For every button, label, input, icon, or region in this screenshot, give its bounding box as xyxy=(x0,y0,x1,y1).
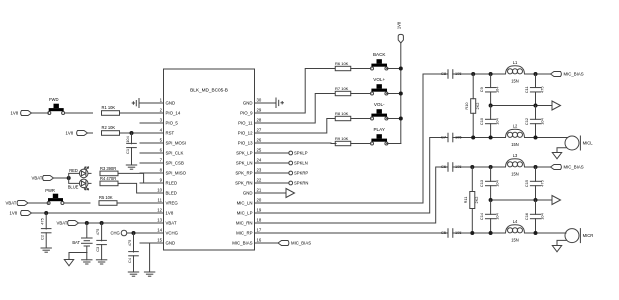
svg-text:BACK: BACK xyxy=(373,52,386,57)
junction C9 top xyxy=(489,72,493,76)
junction C10 bottom xyxy=(489,136,493,140)
pin 12 1V8 stub xyxy=(140,208,174,216)
ground (1V8 cap) xyxy=(41,248,51,252)
wire R8 to VOL- switch xyxy=(351,118,371,120)
switch PLAY pushbutton xyxy=(371,134,388,145)
wire R6 to BACK switch xyxy=(351,68,371,70)
svg-text:RST: RST xyxy=(166,131,175,136)
svg-text:MIC_BIAS: MIC_BIAS xyxy=(232,241,252,246)
svg-text:CHG: CHG xyxy=(111,231,120,236)
svg-text:SPI_CLK: SPI_CLK xyxy=(166,151,184,156)
svg-text:104: 104 xyxy=(125,135,130,142)
inductor L4 15N xyxy=(506,219,525,243)
resistor R3 xyxy=(100,171,118,176)
svg-text:MIC_RN: MIC_RN xyxy=(236,221,253,226)
svg-text:475: 475 xyxy=(40,218,45,225)
output flag (right channel mid) xyxy=(552,196,561,205)
svg-text:R6 10K: R6 10K xyxy=(335,61,349,66)
svg-text:VBAT: VBAT xyxy=(57,221,68,226)
svg-text:C15: C15 xyxy=(524,180,529,187)
resistor R2 xyxy=(102,131,120,136)
resistor R11 2K2 xyxy=(463,167,479,233)
junction LED node xyxy=(67,176,71,180)
svg-text:R7 10K: R7 10K xyxy=(335,86,349,91)
wire LED D2 to R4 xyxy=(88,182,91,184)
inductor L2 15N xyxy=(506,123,525,147)
junction C14 bottom xyxy=(489,231,493,235)
pin 1 GND stub xyxy=(140,98,175,106)
svg-text:C3: C3 xyxy=(95,247,100,252)
svg-text:VBAT: VBAT xyxy=(6,201,17,206)
svg-text:104: 104 xyxy=(495,86,500,93)
svg-text:SPK_LP: SPK_LP xyxy=(236,151,253,156)
svg-text:MIC_BIAS: MIC_BIAS xyxy=(291,241,311,246)
wire R1 to pin 2 xyxy=(120,112,164,114)
wire pin 15 GND to ground xyxy=(150,243,164,272)
wire R3 to pin 9 RLED xyxy=(118,173,164,183)
port SPKLP xyxy=(289,151,308,156)
svg-text:104: 104 xyxy=(495,179,500,186)
pin 3 PIO_5 stub xyxy=(140,118,178,126)
wire VBAT to LED node xyxy=(54,177,69,179)
svg-text:PLAY: PLAY xyxy=(373,127,384,132)
wire pin 28 to VOL+ row xyxy=(276,94,336,124)
wire BACK switch to 1V8 rail xyxy=(387,68,401,70)
svg-text:13: 13 xyxy=(157,218,162,223)
wire pin to SPKRN port xyxy=(276,182,289,184)
svg-text:C10: C10 xyxy=(479,117,484,125)
svg-text:C11: C11 xyxy=(524,86,529,93)
svg-text:11: 11 xyxy=(158,198,163,203)
svg-text:SPKLN: SPKLN xyxy=(294,161,308,166)
capacitor C9 xyxy=(479,74,500,106)
pin 5 SPI_MOSI stub xyxy=(140,138,186,146)
svg-text:VCHG: VCHG xyxy=(166,231,179,236)
wire C5 to L4 xyxy=(453,232,505,234)
LED D2 BLUE xyxy=(79,179,88,190)
svg-text:475: 475 xyxy=(540,87,545,94)
capacitor C12 xyxy=(524,106,545,138)
capacitor at pin 30 GND xyxy=(276,98,283,108)
pin 21 GND stub xyxy=(243,188,276,196)
wire L1 to MIC_BIAS port xyxy=(525,73,551,75)
svg-text:R5 10K: R5 10K xyxy=(99,195,113,200)
svg-text:105: 105 xyxy=(455,230,462,235)
port VBAT (PWR row) xyxy=(6,201,29,206)
svg-text:C9: C9 xyxy=(479,87,484,92)
svg-text:23: 23 xyxy=(257,168,262,173)
port MIC_BIAS (left channel) xyxy=(551,72,584,77)
wire 1V8 rail vertical xyxy=(400,43,402,144)
wire MICL to ground flag xyxy=(557,148,566,153)
svg-text:C2: C2 xyxy=(40,235,45,240)
svg-text:VBAT: VBAT xyxy=(166,221,177,226)
capacitor C13 xyxy=(479,167,500,200)
wire VOL- switch to 1V8 rail xyxy=(387,118,401,120)
svg-text:BAT: BAT xyxy=(72,240,80,245)
svg-text:19: 19 xyxy=(257,208,262,213)
wire L3 to MIC_BIAS port xyxy=(525,166,551,168)
pin 16 MIC_BIAS stub xyxy=(232,238,275,246)
svg-text:PIO_13: PIO_13 xyxy=(238,141,253,146)
junction VOL+ on 1V8 rail xyxy=(399,92,403,96)
junction C11 top xyxy=(534,72,538,76)
svg-text:105: 105 xyxy=(455,134,462,139)
port VBAT (LED row) xyxy=(32,176,54,181)
svg-text:L1: L1 xyxy=(513,60,518,65)
svg-text:15N: 15N xyxy=(511,171,519,176)
svg-text:C5: C5 xyxy=(441,230,446,235)
svg-text:C12: C12 xyxy=(524,118,529,125)
junction BACK on 1V8 rail xyxy=(399,67,403,71)
wire pin 27 to VOL- row xyxy=(276,119,336,134)
port SPKRN xyxy=(289,181,309,186)
svg-text:MIC_BIAS: MIC_BIAS xyxy=(564,72,584,77)
wire R9 to PLAY switch xyxy=(351,143,371,145)
junction 1V8 cap node xyxy=(44,211,48,215)
pin 18 MIC_RN stub xyxy=(236,218,276,226)
svg-text:2K2: 2K2 xyxy=(474,197,479,204)
capacitor C15 475 xyxy=(524,167,545,200)
svg-text:VREG: VREG xyxy=(166,201,179,206)
wire C7 to L2 xyxy=(453,137,505,139)
wire R7 to VOL+ switch xyxy=(351,93,371,95)
wire pin 26 to PLAY row xyxy=(276,142,337,145)
junction C15 top xyxy=(534,165,538,169)
svg-text:1V8: 1V8 xyxy=(66,131,74,136)
capacitor C16 xyxy=(524,200,545,233)
capacitor C10 xyxy=(479,106,500,138)
wire FWD to R1 xyxy=(65,112,93,114)
svg-text:C14: C14 xyxy=(479,212,484,220)
pin 24 SPK_LN stub xyxy=(236,158,276,166)
svg-text:104: 104 xyxy=(495,117,500,124)
svg-text:VOL-: VOL- xyxy=(374,102,385,107)
wire MICR to ground flag xyxy=(557,240,566,245)
svg-text:MIC_BIAS: MIC_BIAS xyxy=(564,165,584,170)
wire LED D1 to R3 xyxy=(88,172,91,174)
capacitor C2 475 on 1V8 xyxy=(40,213,51,248)
junction C15/C16 mid xyxy=(534,198,538,202)
capacitor C11 475 xyxy=(524,74,545,106)
svg-text:VOL+: VOL+ xyxy=(373,77,385,82)
svg-text:SPKRP: SPKRP xyxy=(294,171,308,176)
svg-text:PIO_9: PIO_9 xyxy=(240,111,253,116)
svg-text:14: 14 xyxy=(157,228,162,233)
svg-text:C8: C8 xyxy=(441,71,446,76)
ground flag (MICL) xyxy=(552,153,561,159)
ground flag (MICR) xyxy=(552,246,561,252)
resistor R9 xyxy=(335,141,351,145)
junction C13 top xyxy=(489,165,493,169)
output flag (pin 21 GND) xyxy=(286,189,295,198)
pin 6 SPI_CLK stub xyxy=(140,148,183,156)
junction RST node xyxy=(130,131,134,135)
svg-text:C13: C13 xyxy=(479,180,484,187)
svg-text:GND: GND xyxy=(243,191,253,196)
pin 11 VREG stub xyxy=(140,198,178,206)
pin 28 PIO_11 stub xyxy=(238,118,275,126)
wire MIC_LP to C7 xyxy=(276,138,449,214)
junction C16 bottom xyxy=(534,231,538,235)
capacitor C14 xyxy=(479,200,500,233)
wire 1V8 to pin 12 xyxy=(32,212,164,214)
svg-text:R11: R11 xyxy=(463,197,468,204)
capacitor C1 104 on RST xyxy=(125,133,136,165)
svg-text:R8 10K: R8 10K xyxy=(335,111,349,116)
capacitor C3 475 on VBAT xyxy=(95,223,106,260)
pin 15 GND stub xyxy=(140,238,175,246)
LED D1 RED xyxy=(79,167,88,178)
svg-text:BLUE: BLUE xyxy=(68,185,79,190)
wire MIC_LN to C8 xyxy=(276,74,449,203)
svg-text:22: 22 xyxy=(257,178,262,183)
svg-text:BLK_MD_BC05-B: BLK_MD_BC05-B xyxy=(190,88,228,93)
svg-text:10: 10 xyxy=(157,188,162,193)
wire R2 to pin 4 RST xyxy=(120,132,164,134)
junction C11/C12 mid xyxy=(534,104,538,108)
port MIC_BIAS (pin 16) xyxy=(278,241,311,246)
svg-text:SPI_MISO: SPI_MISO xyxy=(166,171,187,176)
pin 2 PIO_14 stub xyxy=(140,108,181,116)
capacitor at pin 1 GND xyxy=(132,99,139,108)
pin 25 SPK_LP stub xyxy=(236,148,275,156)
pin 20 MIC_LN stub xyxy=(237,198,276,206)
svg-text:18: 18 xyxy=(257,218,262,223)
svg-text:PWR: PWR xyxy=(45,188,55,193)
svg-text:26: 26 xyxy=(257,138,262,143)
port 1V8 (FWD row) xyxy=(11,111,32,116)
svg-text:SPKLP: SPKLP xyxy=(294,151,308,156)
port 1V8 (RST row) xyxy=(66,131,88,136)
svg-text:15N: 15N xyxy=(511,78,519,83)
wire MIC_RN to C6 xyxy=(276,167,449,223)
svg-text:1V8: 1V8 xyxy=(10,211,18,216)
svg-text:21: 21 xyxy=(257,188,262,193)
svg-text:SPK_RP: SPK_RP xyxy=(235,171,252,176)
svg-text:PIO_5: PIO_5 xyxy=(166,121,179,126)
IC U1 BLK_MD_BC05-B module body xyxy=(164,69,255,250)
wire 1V8 to FWD switch xyxy=(32,112,49,114)
resistor R5 xyxy=(99,201,117,206)
pin 13 VBAT stub xyxy=(140,218,177,226)
resistor R8 xyxy=(335,116,351,120)
switch FWD pushbutton xyxy=(48,104,65,115)
wire mid line (left channel) xyxy=(491,105,552,107)
wire to LED D2 xyxy=(69,178,80,183)
pin 26 PIO_13 stub xyxy=(238,138,276,146)
svg-text:2K2: 2K2 xyxy=(475,103,480,110)
ground (VBAT cap) xyxy=(96,260,106,264)
svg-text:105: 105 xyxy=(455,164,462,169)
svg-text:GND: GND xyxy=(243,101,253,106)
microphone MICL xyxy=(565,136,593,150)
port SPKRP xyxy=(289,171,309,176)
pin 9 RLED stub xyxy=(140,178,177,186)
wire R4 to pin 10 BLED xyxy=(118,183,164,193)
junction C9/C10 mid xyxy=(489,104,493,108)
svg-text:25: 25 xyxy=(257,148,262,153)
svg-text:27: 27 xyxy=(257,128,262,133)
svg-text:R3 390R: R3 390R xyxy=(100,166,116,171)
wire pin to SPKLP port xyxy=(276,152,289,154)
svg-text:475: 475 xyxy=(540,180,545,187)
switch VOL- pushbutton xyxy=(371,109,388,120)
svg-text:PIO_11: PIO_11 xyxy=(238,121,253,126)
svg-text:SPKRN: SPKRN xyxy=(294,181,308,186)
wire VOL+ switch to 1V8 rail xyxy=(387,93,401,95)
pin 10 BLED stub xyxy=(140,188,177,196)
svg-text:PIO_14: PIO_14 xyxy=(166,111,181,116)
capacitor C8 105 xyxy=(441,70,461,79)
svg-text:15: 15 xyxy=(157,238,162,243)
svg-text:1V8: 1V8 xyxy=(396,21,401,29)
svg-text:475: 475 xyxy=(95,229,100,236)
svg-text:L4: L4 xyxy=(513,219,518,224)
junction battery node xyxy=(85,221,89,225)
switch PWR pushbutton xyxy=(47,194,64,205)
svg-text:BLED: BLED xyxy=(166,191,177,196)
svg-text:VBAT: VBAT xyxy=(32,176,43,181)
svg-text:SPI_MOSI: SPI_MOSI xyxy=(166,141,187,146)
port 1V8 (supply row) xyxy=(10,211,32,216)
pin 23 SPK_RP stub xyxy=(235,168,275,176)
capacitor C6 105 xyxy=(441,163,461,172)
svg-text:15N: 15N xyxy=(511,237,519,242)
pin 4 RST stub xyxy=(140,128,175,136)
wire 1V8 to R2 xyxy=(88,132,93,134)
capacitor C5 105 xyxy=(441,229,461,238)
capacitor C4 475 on VCHG xyxy=(127,233,138,272)
wire R5 to pin 11 VREG xyxy=(117,202,164,204)
junction C12 bottom xyxy=(534,136,538,140)
svg-text:PIO_12: PIO_12 xyxy=(238,131,253,136)
svg-text:SPI_CSB: SPI_CSB xyxy=(166,161,184,166)
wire VBAT to pin 13 xyxy=(79,222,164,224)
junction R11 top xyxy=(470,165,474,169)
wire L4 to MICR xyxy=(525,232,567,234)
wire pin 29 to BACK row xyxy=(276,69,336,114)
wire PWR to R5 xyxy=(64,202,90,204)
svg-text:GND: GND xyxy=(166,101,176,106)
battery BAT xyxy=(72,223,92,253)
wire VBAT to PWR switch xyxy=(28,202,49,204)
svg-text:104: 104 xyxy=(540,212,545,219)
wire pin to SPKLN port xyxy=(276,162,289,164)
svg-text:104: 104 xyxy=(540,117,545,124)
resistor R7 xyxy=(335,91,351,95)
junction R10 bottom xyxy=(471,136,475,140)
wire CHG to pin 14 VCHG xyxy=(134,232,164,234)
wire to LED D1 xyxy=(69,173,80,178)
inductor L3 15N xyxy=(506,153,525,177)
svg-text:1V8: 1V8 xyxy=(166,211,174,216)
svg-text:R9 10K: R9 10K xyxy=(335,136,349,141)
svg-text:R2 10K: R2 10K xyxy=(102,125,116,130)
svg-text:C6: C6 xyxy=(441,164,446,169)
pin 30 GND stub xyxy=(243,98,276,106)
wire MIC_RP to C5 xyxy=(276,232,449,234)
svg-text:R1 10K: R1 10K xyxy=(102,105,116,110)
svg-text:1V8: 1V8 xyxy=(11,111,19,116)
svg-text:R4 470R: R4 470R xyxy=(100,176,116,181)
svg-text:MIC_LP: MIC_LP xyxy=(237,211,253,216)
port MIC_BIAS (right channel) xyxy=(551,165,584,170)
wire pin to SPKRP port xyxy=(276,172,289,174)
junction C13/C14 mid xyxy=(489,198,493,202)
microphone MICR xyxy=(565,229,593,243)
svg-text:C4: C4 xyxy=(127,257,132,263)
svg-text:20: 20 xyxy=(257,198,262,203)
svg-text:12: 12 xyxy=(157,208,162,213)
pin 8 SPI_MISO stub xyxy=(140,168,187,176)
svg-text:MIC_RP: MIC_RP xyxy=(236,231,253,236)
wire C6 to L3 xyxy=(453,166,505,168)
svg-text:104: 104 xyxy=(495,212,500,219)
pin 7 SPI_CSB stub xyxy=(140,158,184,166)
connector CHG xyxy=(111,230,134,236)
pin 14 VCHG stub xyxy=(140,228,179,236)
svg-text:SPK_LN: SPK_LN xyxy=(236,161,253,166)
pin 22 SPK_RN stub xyxy=(235,178,275,186)
inductor L1 15N xyxy=(506,60,525,84)
pin 19 MIC_LP stub xyxy=(237,208,276,216)
wire PLAY switch to 1V8 rail xyxy=(387,143,401,145)
svg-text:C7: C7 xyxy=(441,134,446,139)
svg-text:C1: C1 xyxy=(125,149,130,154)
svg-text:RED: RED xyxy=(69,168,78,173)
power flag 1V8 (buttons rail) xyxy=(396,21,403,43)
ground (battery) xyxy=(82,260,92,264)
wire mid line (right channel) xyxy=(491,199,552,201)
svg-text:475: 475 xyxy=(127,240,132,247)
svg-text:RLED: RLED xyxy=(166,181,178,186)
ground (VCHG cap) xyxy=(128,272,138,276)
svg-text:FWD: FWD xyxy=(49,97,59,102)
svg-text:L2: L2 xyxy=(513,123,518,128)
capacitor C7 105 xyxy=(441,133,461,142)
svg-text:MIC_LN: MIC_LN xyxy=(237,201,253,206)
resistor R1 xyxy=(102,111,120,116)
wire battery to down-flag xyxy=(69,253,87,260)
svg-text:C16: C16 xyxy=(524,213,529,220)
svg-text:30: 30 xyxy=(257,98,262,103)
wire pin 16 to MIC_BIAS port xyxy=(276,242,279,244)
resistor R4 xyxy=(100,181,118,186)
svg-text:16: 16 xyxy=(257,238,262,243)
power flag down (battery) xyxy=(64,260,73,266)
svg-text:15N: 15N xyxy=(511,142,519,147)
svg-text:SPK_RN: SPK_RN xyxy=(235,181,252,186)
port VBAT (battery row) xyxy=(57,221,79,226)
svg-text:28: 28 xyxy=(257,118,262,123)
junction R11 bottom xyxy=(470,231,474,235)
resistor R6 xyxy=(335,66,351,70)
junction VBAT cap node xyxy=(100,221,104,225)
output flag (left channel mid) xyxy=(552,101,561,110)
port SPKLN xyxy=(289,161,308,166)
pin 17 MIC_RP stub xyxy=(236,228,275,236)
resistor R10 2K2 xyxy=(464,74,480,138)
pin 27 PIO_12 stub xyxy=(238,128,276,136)
svg-text:R10: R10 xyxy=(464,102,469,110)
svg-text:24: 24 xyxy=(257,158,262,163)
junction R10 top xyxy=(471,72,475,76)
svg-text:105: 105 xyxy=(455,71,462,76)
junction VOL- on 1V8 rail xyxy=(399,117,403,121)
svg-text:L3: L3 xyxy=(513,153,518,158)
wire L2 to MICL xyxy=(525,137,568,139)
